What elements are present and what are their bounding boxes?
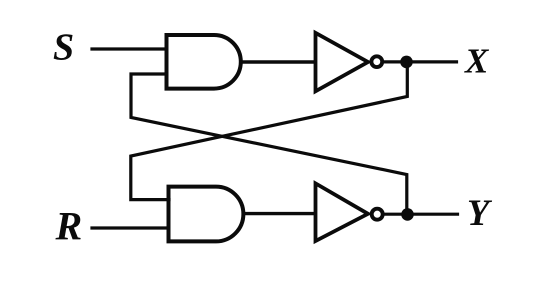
svg-text:X: X — [464, 42, 490, 81]
and-gate G1 — [167, 35, 241, 89]
wire R input — [92, 226, 168, 229]
svg-text:Y: Y — [467, 192, 493, 233]
wire U2 output to Y — [384, 213, 458, 216]
wire G1 output — [241, 60, 315, 63]
svg-text:R: R — [55, 204, 83, 249]
wire Y feedback to G1 lower input — [131, 74, 407, 214]
wire S input — [92, 47, 166, 50]
junction node X — [400, 56, 413, 69]
inverter U1 bubble — [371, 56, 382, 67]
wire X feedback to G2 upper input — [131, 62, 408, 200]
wire G2 output — [243, 212, 315, 215]
svg-text:S: S — [53, 26, 74, 68]
inverter U2 — [316, 183, 369, 241]
wire U1 output to X — [383, 60, 457, 63]
inverter U1 — [316, 33, 369, 92]
junction node Y — [401, 208, 414, 221]
inverter U2 bubble — [372, 209, 383, 220]
and-gate G2 — [169, 187, 244, 242]
